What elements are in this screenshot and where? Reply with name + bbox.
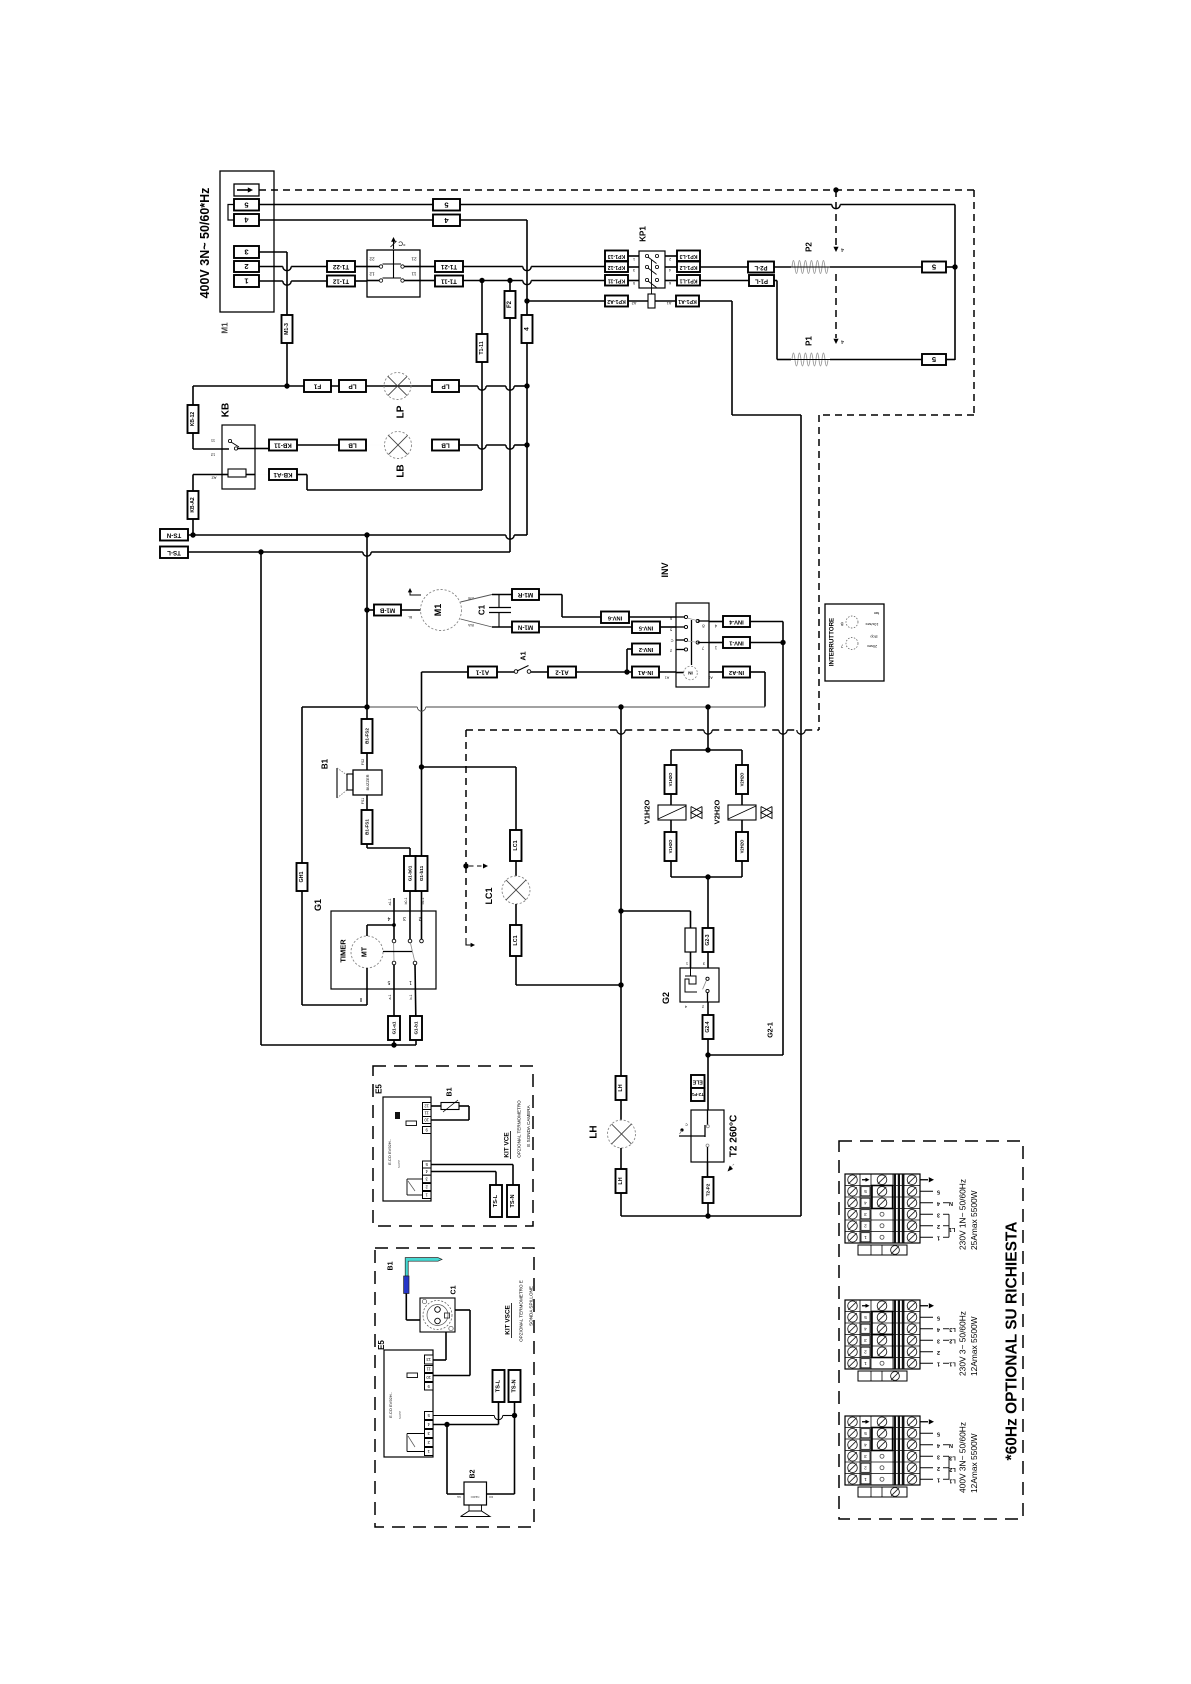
svg-text:T1-22: T1-22 — [332, 263, 349, 270]
fuse F2 vertical wire — [509, 281, 511, 553]
bracket joining terminals 5 and 4 — [228, 205, 234, 221]
switch A1 — [497, 671, 514, 673]
terminal block 230V 1N body — [845, 1174, 920, 1243]
svg-text:12: 12 — [210, 453, 215, 458]
svg-text:fan: fan — [874, 611, 879, 615]
wire label box LP right — [432, 380, 459, 392]
svg-text:A1: A1 — [521, 651, 528, 660]
wire INV-1 to G2 rail — [750, 642, 783, 644]
svg-text:G1-b11: G1-b11 — [419, 865, 424, 881]
option boundary arrow to LC1 — [469, 865, 483, 867]
terminal block 230V 1N row 2 — [848, 1221, 858, 1231]
wire label box KB-11 — [269, 440, 297, 451]
svg-text:KP1-A2: KP1-A2 — [607, 298, 626, 304]
optional blocks dashed outline — [839, 1141, 1023, 1519]
wire label box KP1-12 — [605, 262, 628, 273]
svg-text:V2H2O: V2H2O — [740, 772, 745, 786]
wire label box KB-12 — [188, 405, 199, 433]
neutral rail TS-N — [188, 534, 506, 536]
wire label box INV-4 — [723, 616, 750, 627]
buzzer B1 body — [353, 770, 382, 795]
wire label box B1-FS2 — [362, 719, 373, 753]
wire label box G1-b01 — [404, 856, 416, 891]
svg-text:T1-12: T1-12 — [332, 278, 349, 285]
svg-text:N: N — [949, 1200, 953, 1206]
kit VCE probe wiring loop — [431, 1105, 441, 1107]
svg-text:BIA: BIA — [468, 623, 474, 627]
svg-text:B1: B1 — [321, 758, 330, 769]
terminal block 230V 1N row 4 — [848, 1198, 858, 1208]
svg-text:INV-4: INV-4 — [728, 619, 743, 625]
svg-text:2: 2 — [864, 1223, 867, 1228]
svg-text:SUPP: SUPP — [398, 1411, 402, 1419]
wire KP1 coil A2 to N rail — [527, 300, 605, 302]
solenoid valve V2H2O coil — [728, 805, 756, 820]
svg-text:1: 1 — [633, 257, 635, 261]
wire M1-N to INV-5 — [539, 626, 632, 628]
wire label box ELE — [691, 1075, 705, 1088]
vertical rail G2-1 — [782, 622, 784, 1056]
terminal block 230V 3 row 5 — [848, 1312, 858, 1322]
kit VSCE probe handle blue — [404, 1276, 409, 1294]
kit VCE electronic board outline — [383, 1097, 431, 1201]
wire label box KP1-A1 — [676, 296, 699, 307]
svg-text:G2-1: G2-1 — [768, 1022, 775, 1038]
svg-text:V1H2O: V1H2O — [643, 800, 652, 825]
svg-text:KP1-L2: KP1-L2 — [679, 264, 697, 270]
kit VSCE dashed outline — [375, 1248, 534, 1527]
svg-text:FS2: FS2 — [361, 759, 365, 765]
junction TS-N / M1 motor branch — [364, 532, 369, 537]
wire label box G1-b1 — [410, 1016, 422, 1040]
wire KB coil A2 to TS-N — [193, 474, 222, 476]
svg-text:TS-L: TS-L — [493, 1194, 499, 1207]
option boundary left dashed drop — [465, 730, 467, 866]
wire label box G1-a1 — [388, 1016, 400, 1040]
terminal block 230V 3 bold cell frames — [872, 1312, 893, 1335]
svg-text:E.CO EV92H..: E.CO EV92H.. — [387, 1139, 392, 1165]
svg-text:SUPP: SUPP — [397, 1160, 401, 1168]
svg-text:FS1: FS1 — [361, 798, 365, 804]
contactor KP1 coil — [648, 294, 655, 308]
wire 3 from supply to LP feed — [259, 251, 287, 253]
svg-text:SONDA SPILLONE: SONDA SPILLONE — [529, 1286, 534, 1326]
relay KB contact — [228, 439, 231, 442]
kit VCE board terminals 5 4 3 2 1 — [423, 1161, 432, 1168]
svg-text:4: 4 — [387, 915, 390, 921]
wire label box KP1-L3 — [677, 251, 700, 262]
kit VCE board connector mark — [395, 1112, 400, 1119]
svg-text:L3: L3 — [949, 1454, 956, 1460]
wire label box IN-A2 — [723, 667, 750, 678]
terminal block 400V 3N header row — [848, 1417, 858, 1427]
motor M1 earth arrow — [410, 590, 421, 595]
svg-text:3: 3 — [244, 248, 248, 257]
vertical LC1 chain — [515, 767, 517, 830]
svg-text:1: 1 — [409, 979, 412, 985]
svg-text:NERO: NERO — [470, 1495, 479, 1499]
wire label box B1-FS1 — [362, 810, 373, 844]
wire 5 mid label box — [433, 199, 460, 211]
wire M1-3 vertical — [286, 252, 288, 386]
svg-text:T1-21: T1-21 — [440, 263, 457, 270]
terminal block 230V 3 header row — [848, 1301, 858, 1311]
svg-text:230V 1N~ 50/60Hz: 230V 1N~ 50/60Hz — [958, 1179, 968, 1250]
svg-text:G1-b1: G1-b1 — [414, 1021, 419, 1034]
svg-text:INV-1: INV-1 — [728, 640, 743, 646]
svg-text:P1: P1 — [805, 336, 814, 346]
wire label box M1-B — [374, 605, 401, 616]
fuse label box F1 — [304, 380, 331, 392]
svg-text:stop: stop — [870, 635, 877, 639]
svg-text:KP1: KP1 — [639, 226, 648, 242]
svg-text:4: 4 — [669, 268, 671, 272]
svg-text:2: 2 — [244, 262, 248, 271]
lamp LH — [608, 1120, 636, 1148]
svg-text:LB: LB — [441, 442, 450, 449]
option inner dashed drop to wire 4 — [835, 190, 837, 246]
svg-text:KP1-13: KP1-13 — [608, 253, 626, 259]
timer motor return pin II — [366, 968, 368, 1005]
wire 5 from supply to P1/P2 feed — [259, 204, 832, 206]
wire terminal box 5 for P2 — [922, 262, 946, 273]
wire label box TS-N — [160, 529, 188, 541]
svg-text:3: 3 — [937, 1453, 940, 1459]
wire LH to bottom return row — [620, 1193, 622, 1216]
wire label box KP1-A2 — [605, 296, 628, 307]
svg-text:5: 5 — [937, 1314, 940, 1320]
relay KB coil — [228, 469, 246, 477]
svg-text:LH: LH — [589, 1125, 600, 1138]
svg-text:LP: LP — [396, 405, 407, 418]
svg-text:400V 3N~ 50/60Hz: 400V 3N~ 50/60Hz — [958, 1422, 968, 1493]
svg-text:B1: B1 — [388, 1261, 395, 1270]
thermostat T1 sensing bulb arrow and deg C mark — [393, 239, 395, 249]
junction A1 row / INV-2 — [624, 669, 629, 674]
svg-text:LH: LH — [618, 1177, 624, 1184]
lamp LC1 — [502, 876, 530, 904]
option boundary down-right arrow — [466, 938, 471, 945]
svg-text:LB: LB — [396, 464, 407, 477]
svg-text:1: 1 — [864, 1477, 867, 1482]
kit VCE probe B1 thermistor — [441, 1103, 459, 1110]
svg-text:II: II — [360, 996, 363, 1002]
kit VCE jumper terminals 3 to 1 — [407, 1178, 423, 1180]
svg-text:400V 3N~ 50/60*Hz: 400V 3N~ 50/60*Hz — [198, 188, 212, 299]
wire INV-4 to G2 rail — [750, 621, 783, 623]
terminal M1 pin 2 box — [234, 261, 259, 272]
heating element P1 — [792, 353, 828, 366]
wire label box LC1 upper — [510, 830, 522, 861]
svg-text:P2: P2 — [805, 242, 814, 252]
svg-text:INV-2: INV-2 — [639, 646, 654, 652]
kit VSCE board terminals 13 11 10 9 — [425, 1355, 434, 1364]
wire label box P1-L — [749, 275, 774, 286]
svg-text:5: 5 — [864, 1431, 867, 1436]
kit VSCE board jumper — [407, 1373, 418, 1378]
kit VSCE buzzer B2 feed — [446, 1425, 448, 1495]
kit VSCE probe needle teal — [405, 1258, 442, 1276]
svg-text:12Amax 5500W: 12Amax 5500W — [969, 1316, 979, 1376]
svg-text:4: 4 — [864, 1200, 867, 1205]
wire label box KP1-L2 — [677, 262, 700, 273]
wire label box INV-1 — [723, 637, 750, 648]
wire label box V2H2O upper — [736, 765, 748, 794]
wire label box G2-4 — [703, 1015, 714, 1039]
junction common row / water valve rail — [705, 704, 710, 709]
wire label box T2-P1 — [691, 1088, 705, 1101]
junction LC1 return / LC1-G2 rail — [618, 982, 623, 987]
terminal block 400V 3N body — [845, 1416, 920, 1485]
svg-text:20sec: 20sec — [867, 644, 877, 648]
svg-text:TS-N: TS-N — [166, 531, 181, 538]
svg-text:L3: L3 — [949, 1326, 956, 1332]
wire LC1 bottom to G2 rail — [516, 984, 621, 986]
svg-text:LC1: LC1 — [513, 840, 519, 850]
lamp LB — [385, 432, 412, 459]
svg-text:12Amax 5500W: 12Amax 5500W — [969, 1433, 979, 1493]
svg-text:M1-N: M1-N — [517, 624, 533, 631]
svg-text:TS-L: TS-L — [167, 549, 181, 556]
junction common row / buzzer rail — [364, 704, 369, 709]
timer motor MT — [351, 936, 383, 968]
svg-text:C1: C1 — [478, 604, 487, 615]
wire terminal box 5 for P1 — [922, 354, 946, 365]
svg-text:RO: RO — [488, 1495, 493, 1499]
thermostat T2 outline — [691, 1110, 724, 1162]
svg-text:B2: B2 — [470, 1469, 477, 1478]
kit VSCE wire C1 to board terminal 10 — [455, 1309, 470, 1311]
junction rail / G2 feed — [618, 908, 623, 913]
svg-text:13: 13 — [426, 1357, 431, 1362]
bottom return row wire — [621, 1215, 801, 1217]
svg-text:6: 6 — [669, 281, 671, 285]
kit VSCE TS-N rail vertical — [514, 1402, 516, 1494]
svg-text:OPZIONAL TERMOMETRO: OPZIONAL TERMOMETRO — [517, 1100, 522, 1158]
wire G2 to T2 — [707, 1055, 709, 1110]
wire label box T1-12 — [327, 276, 355, 287]
wire label box V1H2O lower — [665, 832, 677, 861]
svg-text:3: 3 — [937, 1211, 940, 1217]
svg-text:GE: GE — [457, 1495, 461, 1499]
kit VSCE junction terminal 5 / TS-N — [512, 1413, 517, 1418]
motor aux winding wire — [461, 619, 493, 627]
terminal block 400V 3N row 4 — [848, 1440, 858, 1450]
svg-text:G2: G2 — [661, 992, 671, 1004]
kit VSCE wire label box TS-L — [493, 1370, 505, 1402]
svg-text:1: 1 — [864, 1235, 867, 1240]
terminal M1 pin 5 box — [234, 199, 259, 211]
ballast resistor box at G2 pin 1 — [685, 928, 696, 952]
wire KB coil return horizontal — [307, 489, 482, 491]
svg-text:M1-R: M1-R — [517, 591, 533, 598]
junction TS-L / timer branch — [258, 549, 263, 554]
svg-text:M1-3: M1-3 — [284, 323, 290, 335]
vertical rail TS-L to timer — [260, 552, 262, 1045]
junction valve feed split — [705, 747, 710, 752]
svg-text:5: 5 — [387, 979, 390, 985]
svg-text:G2-4: G2-4 — [705, 1021, 711, 1032]
junction P2 / wire 5 rail — [952, 264, 957, 269]
wire IN-A2 down to common node row — [750, 671, 765, 673]
svg-text:LP: LP — [348, 383, 357, 390]
wire M1-3 label box — [282, 315, 293, 343]
terminal block 400V 3N bus bars — [894, 1416, 896, 1485]
wire TS-N rail to buzzer — [366, 707, 368, 719]
svg-text:b-1: b-1 — [409, 994, 413, 999]
timer contacts — [392, 939, 396, 943]
wire T2 output — [707, 1162, 709, 1177]
terminal M1 pin 3 box — [234, 246, 259, 258]
wire label box LH upper — [616, 1076, 627, 1100]
svg-text:4: 4 — [524, 327, 531, 331]
svg-text:2: 2 — [669, 257, 671, 261]
svg-text:3: 3 — [633, 268, 635, 272]
selector INV contacts — [684, 615, 687, 618]
svg-text:TS-N: TS-N — [512, 1379, 518, 1392]
svg-text:T2-P2: T2-P2 — [706, 1183, 711, 1196]
svg-text:12: 12 — [369, 272, 375, 277]
svg-text:2: 2 — [864, 1465, 867, 1470]
wire KP1-A1 to heater return rail — [699, 300, 732, 302]
kit VSCE board terminals 5 4 3 2 1 — [425, 1412, 434, 1420]
svg-text:ELE: ELE — [692, 1079, 703, 1085]
vertical rail common to LH lamp — [620, 707, 622, 1076]
vertical heater return rail — [800, 415, 802, 1216]
svg-text:V2H2O: V2H2O — [713, 800, 722, 825]
wire motor feed M1-B — [367, 609, 374, 611]
junction T1-11 / F2 branch — [507, 278, 512, 283]
wire A1-2 to INV — [576, 671, 632, 673]
kit VCE board jumper — [406, 1121, 417, 1126]
svg-text:C: C — [670, 639, 673, 644]
wire 5 right vertical to heater terminals — [954, 205, 956, 361]
wire 4 vertical label box — [522, 315, 533, 343]
wire G2-1 rail corner — [708, 1054, 783, 1056]
junction N rail / KP1-A2 — [524, 298, 529, 303]
terminal M1 pin 4 box — [234, 214, 259, 226]
wire buzzer to timer — [366, 795, 368, 810]
svg-text:KB: KB — [221, 403, 232, 417]
terminal block 230V 1N row 1 — [848, 1232, 858, 1242]
junction T1-11 / KB coil branch — [479, 278, 484, 283]
relay KB outline — [222, 425, 255, 489]
kit VCE wire terminal 5 to TS-N — [431, 1164, 513, 1166]
svg-text:3: 3 — [864, 1338, 867, 1343]
svg-text:T1-11: T1-11 — [441, 278, 457, 285]
svg-text:G1-b01: G1-b01 — [408, 865, 413, 881]
kit VCE wire label box TS-N — [507, 1185, 519, 1217]
svg-text:1: 1 — [937, 1234, 940, 1240]
terminal block 400V 3N row 3 — [848, 1451, 858, 1461]
solenoid valve V1H2O coil — [658, 805, 686, 820]
svg-text:KB-A1: KB-A1 — [273, 471, 292, 478]
svg-text:*60Hz OPTIONAL SU RICHIESTA: *60Hz OPTIONAL SU RICHIESTA — [1004, 1222, 1021, 1461]
selector INV shaft — [691, 620, 693, 665]
wire label box KB-A2 — [188, 491, 199, 519]
svg-text:5: 5 — [864, 1189, 867, 1194]
svg-text:B1: B1 — [447, 1087, 454, 1096]
svg-text:P2-L: P2-L — [754, 264, 767, 270]
svg-text:3: 3 — [937, 1337, 940, 1343]
kit VSCE dial C1 body — [420, 1298, 455, 1332]
wire label box INV-2 — [632, 644, 660, 655]
wire label box LP left — [339, 380, 366, 392]
svg-text:25Amax 5500W: 25Amax 5500W — [969, 1190, 979, 1250]
thermostat T1 contact pole 1 — [379, 265, 382, 268]
thermostat T1 outline — [367, 250, 420, 297]
svg-text:KIT VCE: KIT VCE — [504, 1132, 511, 1158]
timer internal feed — [366, 925, 368, 936]
wire label box KP1-L1 — [677, 275, 700, 286]
motor run winding wire — [461, 595, 493, 603]
terminal block 400V 3N row 2 — [848, 1463, 858, 1473]
svg-text:a1-1: a1-1 — [388, 898, 392, 905]
valve V1H2O body — [691, 807, 702, 819]
svg-text:V1H2O: V1H2O — [668, 839, 673, 853]
wire label box T1-11 — [435, 276, 463, 287]
wire A1 node to LC1 — [422, 766, 517, 768]
svg-text:3: 3 — [864, 1454, 867, 1459]
thermostat G2 outline — [680, 968, 719, 1002]
wire G2 output — [707, 1002, 709, 1015]
thermostat G2 internal element — [690, 968, 692, 976]
svg-text:IN: IN — [688, 671, 693, 676]
option boundary dashed outline — [259, 189, 974, 191]
wire label box P2-L — [748, 262, 774, 273]
switch legend INTERRUTTORE outline — [825, 604, 884, 681]
kit VCE board terminals 12 11 10 9 — [423, 1103, 432, 1110]
wire label box LB right — [432, 440, 459, 451]
wire INV-2 to A1 row — [627, 648, 632, 650]
svg-text:V2H2O: V2H2O — [740, 839, 745, 853]
svg-text:TIMER: TIMER — [339, 939, 348, 963]
timer return to GH1 branch — [302, 1004, 367, 1006]
junction G2 output / G2-1 rail — [705, 1052, 710, 1057]
svg-text:G1-a1: G1-a1 — [392, 1021, 397, 1034]
terminal block 400V 3N phase bridge — [943, 1455, 949, 1457]
wire T1-11 to contactor KP1 — [420, 280, 435, 282]
wire LP row from KB-12 rail to N rail — [193, 385, 478, 387]
wire G2 feed from rail — [621, 910, 691, 912]
svg-text:10: 10 — [426, 1375, 431, 1380]
thermostat T1 actuator shaft — [393, 250, 395, 278]
svg-text:A1-2: A1-2 — [555, 669, 569, 676]
valve return bus — [671, 876, 742, 878]
svg-text:F2: F2 — [507, 300, 513, 308]
kit VSCE buzzer B2 horn — [469, 1505, 482, 1511]
vertical wire A1 to timer pin 2 — [421, 672, 423, 767]
timer pin stub a1-1 — [393, 898, 395, 939]
motor M1 body — [421, 590, 462, 631]
kit VCE wire terminal 4 to TS-L — [431, 1171, 496, 1173]
svg-text:A1-1: A1-1 — [475, 669, 489, 676]
svg-text:T2 260°C: T2 260°C — [729, 1115, 740, 1157]
svg-text:1: 1 — [937, 1360, 940, 1366]
wire label box GH1 — [297, 863, 308, 891]
contactor KP1 actuator link — [651, 260, 653, 294]
wire 4 neutral from supply — [259, 219, 527, 221]
wire 4 / N vertical rail — [526, 220, 528, 535]
svg-text:5: 5 — [937, 1188, 940, 1194]
heating element P2 — [792, 261, 828, 274]
svg-text:2: 2 — [864, 1349, 867, 1354]
wire LB row to N rail — [366, 444, 384, 446]
wire label box T1-22 — [327, 261, 355, 272]
kit VSCE buzzer B2 return to TS-N — [487, 1493, 515, 1495]
svg-text:b1-1: b1-1 — [421, 897, 425, 904]
svg-text:2: 2 — [937, 1465, 940, 1471]
